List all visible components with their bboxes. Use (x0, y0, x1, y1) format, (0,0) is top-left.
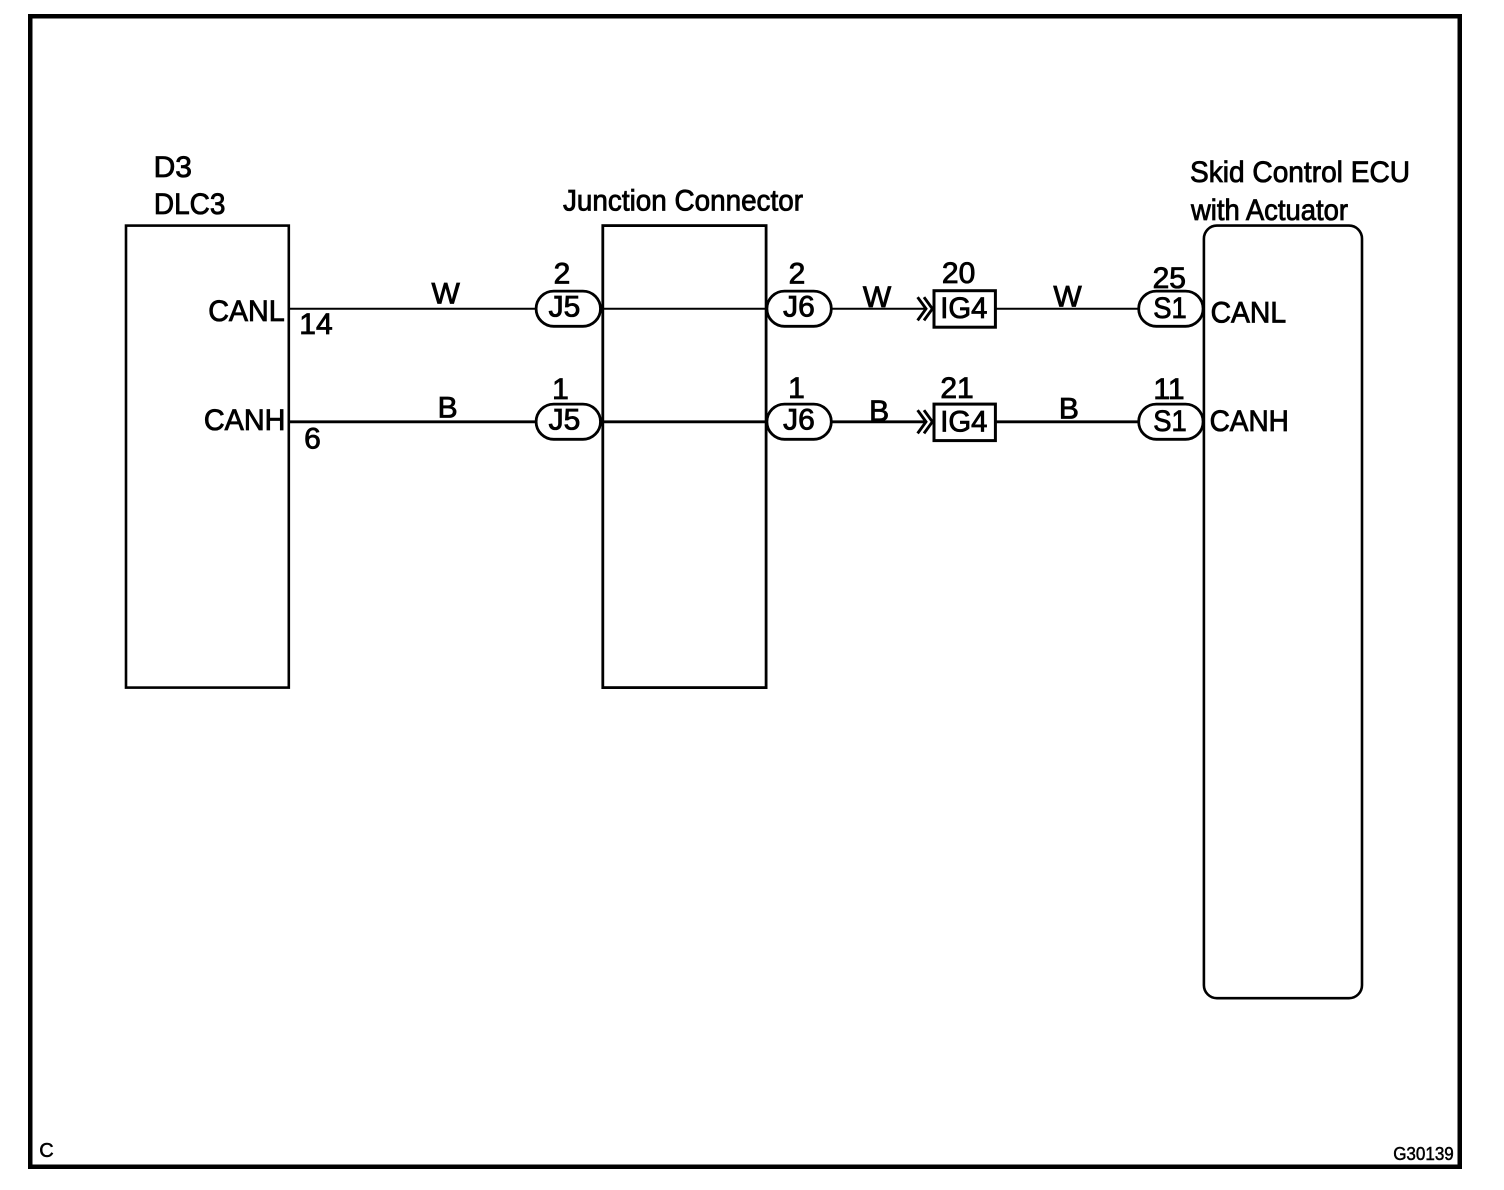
svg-text:6: 6 (304, 423, 321, 456)
svg-text:2: 2 (554, 258, 571, 291)
svg-text:G30139: G30139 (1393, 1144, 1454, 1164)
svg-text:with Actuator: with Actuator (1190, 194, 1348, 227)
svg-text:J6: J6 (783, 404, 815, 437)
svg-text:1: 1 (552, 373, 569, 406)
svg-text:CANL: CANL (208, 295, 285, 328)
svg-text:2: 2 (789, 258, 806, 291)
svg-text:21: 21 (940, 372, 973, 405)
svg-text:C: C (39, 1140, 53, 1162)
svg-text:CANL: CANL (1211, 297, 1287, 330)
svg-text:J5: J5 (549, 404, 581, 437)
svg-text:14: 14 (299, 308, 332, 341)
svg-text:11: 11 (1153, 373, 1184, 406)
svg-text:B: B (1059, 392, 1079, 425)
svg-text:CANH: CANH (204, 404, 286, 437)
svg-text:W: W (432, 278, 461, 311)
svg-text:W: W (1053, 281, 1082, 314)
svg-text:IG4: IG4 (940, 292, 987, 325)
svg-text:D3: D3 (154, 151, 192, 184)
svg-text:Skid Control ECU: Skid Control ECU (1190, 156, 1410, 189)
svg-text:S1: S1 (1153, 405, 1187, 438)
svg-text:J6: J6 (783, 291, 815, 324)
svg-text:S1: S1 (1153, 292, 1187, 325)
svg-text:IG4: IG4 (940, 405, 987, 438)
svg-text:J5: J5 (549, 291, 581, 324)
svg-text:20: 20 (942, 257, 975, 290)
svg-text:DLC3: DLC3 (154, 188, 226, 221)
svg-text:W: W (863, 281, 892, 314)
svg-text:B: B (438, 392, 458, 425)
svg-text:25: 25 (1153, 262, 1186, 295)
svg-text:Junction Connector: Junction Connector (563, 185, 803, 218)
svg-text:1: 1 (788, 372, 805, 405)
svg-text:CANH: CANH (1210, 405, 1289, 438)
svg-text:B: B (869, 395, 889, 428)
